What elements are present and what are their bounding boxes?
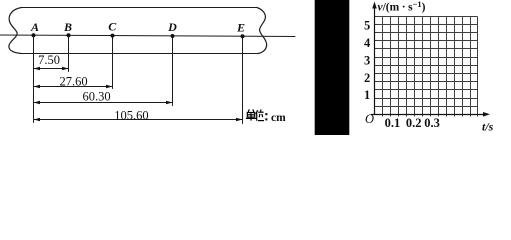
svg-text:t/s: t/s (482, 119, 494, 133)
svg-text:C: C (108, 20, 117, 34)
svg-text:105.60: 105.60 (114, 108, 148, 122)
svg-text:A: A (30, 20, 39, 34)
svg-text:5: 5 (364, 19, 370, 33)
svg-text:0.1: 0.1 (385, 116, 401, 130)
svg-text:D: D (167, 20, 177, 34)
svg-text:O: O (365, 112, 374, 126)
svg-text:0.2: 0.2 (406, 116, 422, 130)
svg-text:E: E (236, 20, 245, 34)
svg-text:cm: cm (271, 112, 286, 124)
svg-text:27.60: 27.60 (59, 74, 87, 88)
svg-text:3: 3 (364, 53, 370, 67)
svg-text:60.30: 60.30 (82, 89, 110, 103)
svg-text:0.3: 0.3 (424, 116, 440, 130)
svg-text:v/(m·s−1): v/(m·s−1) (378, 0, 426, 14)
svg-text:7.50: 7.50 (38, 53, 60, 67)
svg-text:4: 4 (364, 36, 371, 50)
svg-text:2: 2 (364, 71, 370, 85)
svg-text:1: 1 (364, 88, 370, 102)
svg-text:B: B (63, 20, 72, 34)
